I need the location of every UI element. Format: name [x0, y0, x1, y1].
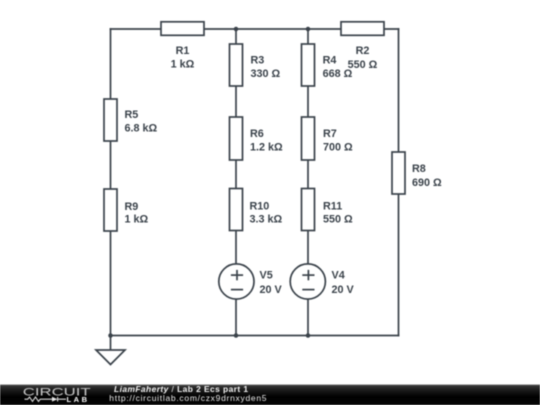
wire middle column 1: R3/R6/R10/V5 branch at x=236: [235, 29, 237, 336]
resistor R11 body: [302, 189, 315, 231]
footer bar: [0, 385, 540, 405]
wire right rail: top-right corner down to bottom wire: [398, 29, 400, 336]
resistor R4 body: [302, 44, 315, 86]
junction node top-2 (R2/R4 junction): [306, 27, 311, 32]
svg-text:668 Ω: 668 Ω: [323, 68, 353, 80]
junction node bottom V5: [234, 333, 239, 338]
resistor R5 body: [104, 99, 117, 141]
svg-text:20 V: 20 V: [332, 284, 355, 296]
svg-text:http://circuitlab.com/czx9drnx: http://circuitlab.com/czx9drnxyden5: [109, 393, 267, 403]
footer logo resistor-diode glyph: [25, 397, 67, 402]
resistor R6 body: [230, 117, 243, 160]
svg-text:R10: R10: [250, 200, 270, 212]
junction node bottom V4: [306, 333, 311, 338]
resistor R1 body: [161, 22, 204, 36]
svg-text:R7: R7: [323, 128, 337, 140]
svg-text:R5: R5: [125, 109, 139, 121]
resistor R8 body: [392, 152, 405, 194]
svg-text:550 Ω: 550 Ω: [323, 214, 353, 226]
ground symbol: [96, 350, 125, 365]
resistor R10 body: [230, 189, 243, 231]
resistor R7 body: [302, 117, 315, 160]
svg-text:6.8 kΩ: 6.8 kΩ: [125, 123, 158, 135]
svg-text:330 Ω: 330 Ω: [251, 68, 281, 80]
svg-text:V4: V4: [332, 269, 345, 281]
wire middle column 2: R4/R7/R11/V4 branch at x=308: [307, 29, 309, 336]
svg-text:R1: R1: [176, 45, 190, 57]
voltage source V5 body: [219, 264, 254, 299]
svg-text:1 kΩ: 1 kΩ: [125, 214, 149, 226]
resistor R3 body: [230, 44, 243, 86]
junction node bottom ground: [108, 333, 113, 338]
svg-text:20 V: 20 V: [260, 284, 283, 296]
svg-text:3.3 kΩ: 3.3 kΩ: [250, 214, 283, 226]
wire top: left rail to right rail along y=29: [111, 28, 399, 30]
svg-text:R6: R6: [250, 128, 264, 140]
svg-text:LAB: LAB: [67, 395, 88, 404]
svg-text:1 kΩ: 1 kΩ: [171, 59, 195, 71]
svg-text:700 Ω: 700 Ω: [323, 142, 353, 154]
svg-text:R2: R2: [356, 45, 370, 57]
svg-text:690 Ω: 690 Ω: [412, 177, 442, 189]
svg-text:1.2 kΩ: 1.2 kΩ: [250, 142, 283, 154]
wire bottom: from ground node to right rail along y=335.5: [111, 335, 399, 337]
junction node top-1 (R1/R3 junction): [234, 27, 239, 32]
svg-text:R11: R11: [323, 200, 342, 212]
wire ground stub: [110, 336, 112, 351]
voltage source V4 body: [290, 264, 325, 299]
svg-text:R8: R8: [412, 163, 426, 175]
resistor R9 body: [104, 189, 117, 231]
svg-text:V5: V5: [260, 269, 273, 281]
resistor R2 body: [341, 22, 384, 36]
wire left rail: top-left corner down to bottom wire: [110, 29, 112, 336]
svg-text:R4: R4: [323, 55, 337, 67]
svg-text:R9: R9: [125, 201, 139, 213]
svg-text:R3: R3: [251, 55, 265, 67]
